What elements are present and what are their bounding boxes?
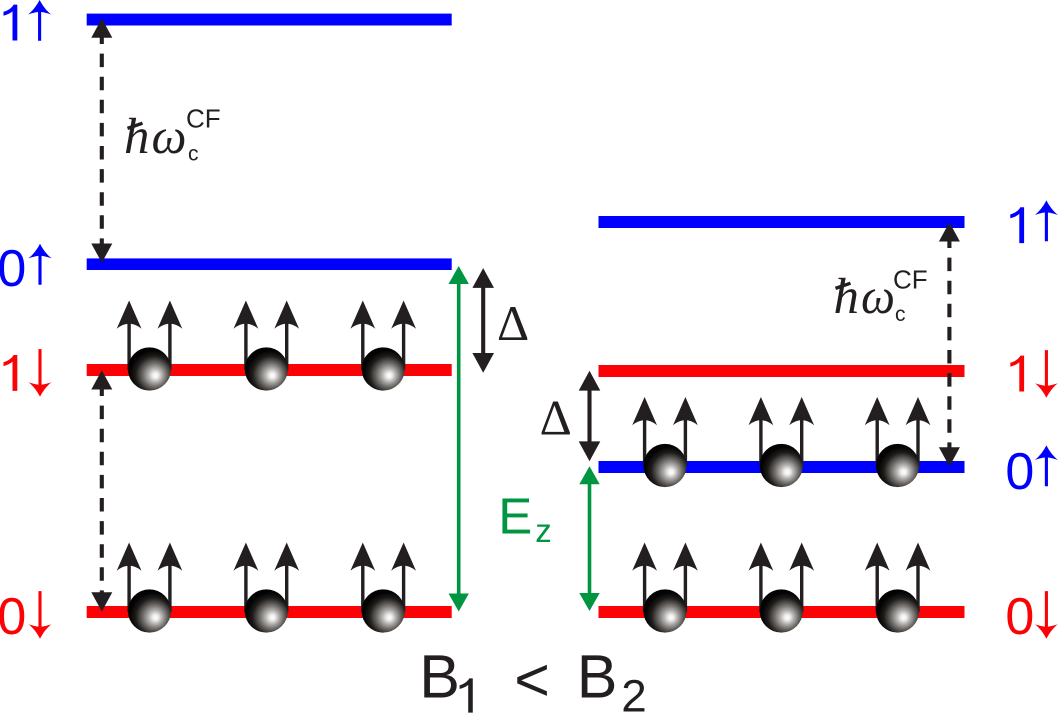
svg-text:Δ: Δ (540, 389, 572, 445)
label 0up right (1005, 443, 1058, 501)
svg-text:CF: CF (893, 265, 928, 295)
label 0dn right (1005, 588, 1058, 646)
B1 < B2 caption (419, 643, 647, 722)
svg-text:ω: ω (152, 109, 187, 165)
label 0dn left (0, 588, 51, 646)
balls with spins on 0up right (632, 397, 698, 487)
level line 0up left (blue) (87, 258, 452, 270)
level line 0up right (blue) (599, 461, 965, 473)
level line 0dn right (red) (599, 606, 965, 618)
svg-text:B: B (577, 643, 618, 711)
label 0up left (0, 240, 51, 298)
svg-text:2: 2 (621, 671, 647, 722)
Delta double arrow right (579, 371, 601, 461)
E_z label (green) (498, 487, 552, 549)
level line 1up right (blue) (599, 216, 965, 228)
level line 1dn right (red) (599, 365, 965, 377)
svg-text:h: h (834, 269, 860, 325)
svg-text:0: 0 (0, 588, 26, 646)
dashed cyclotron gap arrow right (939, 222, 960, 466)
svg-text:ω: ω (861, 269, 895, 325)
hbar omega_c^CF label right (834, 265, 928, 327)
balls with spins on 0dn left (117, 543, 183, 633)
E_z green double arrow right (579, 466, 599, 611)
Delta double arrow left (472, 268, 494, 373)
svg-text:CF: CF (186, 104, 221, 134)
svg-text:B: B (419, 643, 460, 711)
svg-text:c: c (895, 303, 906, 326)
svg-text:<: < (514, 645, 550, 713)
level line 1up left (blue) (87, 14, 452, 26)
label 1dn right (1010, 350, 1058, 398)
label 1up right (1010, 200, 1058, 243)
svg-text:c: c (188, 143, 199, 166)
balls with spins on 0dn right (632, 543, 698, 633)
svg-text:0: 0 (1005, 588, 1034, 646)
label 1dn left (4, 349, 52, 397)
svg-text:Δ: Δ (497, 295, 529, 351)
svg-text:0: 0 (0, 240, 26, 298)
dashed cyclotron gap arrow left bottom (91, 370, 112, 611)
level line 0dn left (red) (87, 606, 452, 618)
balls with spins on 1dn left (117, 301, 183, 391)
level line 1dn left (red) (87, 364, 452, 376)
svg-text:E: E (498, 487, 532, 544)
E_z green double arrow left (449, 266, 469, 612)
svg-text:0: 0 (1005, 443, 1034, 501)
hbar omega_c^CF label left (124, 104, 221, 166)
svg-text:h: h (124, 109, 150, 165)
svg-text:z: z (535, 512, 552, 549)
dashed cyclotron gap arrow left top (91, 18, 112, 262)
label 1up left (4, 0, 52, 41)
